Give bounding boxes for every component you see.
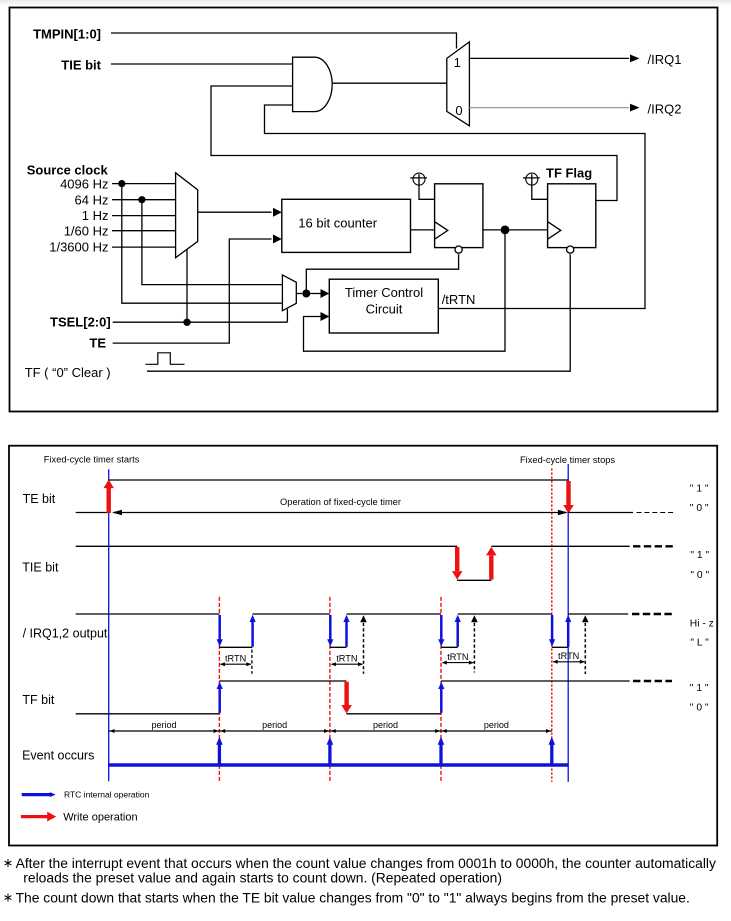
- RTC arrow TF set 2: [440, 689, 443, 713]
- svg-text:RTC internal operation: RTC internal operation: [64, 790, 150, 800]
- svg-text:∗: ∗: [3, 890, 13, 904]
- event arrow 1: [218, 744, 221, 764]
- wire TMPIN select to mux U2: [111, 33, 457, 49]
- TF waveform high 2: [441, 680, 630, 682]
- block diagram outer border: [10, 8, 718, 412]
- svg-text:TSEL[2:0]: TSEL[2:0]: [50, 315, 111, 330]
- wire node Q1 to timer control input 2: [304, 230, 506, 351]
- RTC arrow IRQ rise 3: [456, 622, 459, 647]
- IRQ waveform low pulse 2: [330, 646, 347, 648]
- svg-text:16 bit counter: 16 bit counter: [298, 216, 377, 231]
- svg-text:period: period: [484, 720, 509, 730]
- svg-text:Source clock: Source clock: [27, 163, 109, 178]
- ghost release line pulse 3: [473, 618, 475, 673]
- RTC arrow IRQ fall 4: [551, 615, 554, 640]
- RTC arrow IRQ fall 2: [329, 615, 332, 640]
- svg-text:1/60 Hz: 1/60 Hz: [64, 223, 109, 238]
- wire TF Flag feedback to AND gate U1: [211, 86, 617, 201]
- svg-text:∗: ∗: [3, 856, 13, 870]
- svg-text:0: 0: [455, 103, 462, 118]
- TIE waveform high after: [491, 545, 629, 547]
- svg-text:Event occurs: Event occurs: [22, 749, 94, 763]
- svg-text:Circuit: Circuit: [366, 302, 403, 317]
- timer stop marker line: [567, 464, 569, 782]
- IRQ waveform high segment 3: [458, 613, 552, 615]
- TE waveform trailing dashes: [637, 512, 674, 514]
- svg-text:TIE bit: TIE bit: [61, 58, 101, 73]
- svg-text:tRTN: tRTN: [558, 651, 579, 661]
- svg-text:tRTN: tRTN: [225, 654, 246, 664]
- wire 1 Hz row: [112, 215, 176, 217]
- IRQ waveform high segment 4: [568, 613, 628, 615]
- ghost release line pulse 4: [584, 618, 586, 675]
- timer control circuit U6: [329, 279, 438, 333]
- wire TE to counter enable input: [113, 239, 272, 343]
- svg-text:TMPIN[1:0]: TMPIN[1:0]: [33, 27, 101, 42]
- clock triangle of U8: [548, 222, 561, 240]
- mux U5 prescale select: [282, 275, 296, 311]
- svg-text:TIE bit: TIE bit: [22, 560, 59, 574]
- TIE waveform trailing dashes: [633, 545, 673, 547]
- svg-text:period: period: [151, 720, 176, 730]
- ghost release line pulse 1: [251, 650, 253, 674]
- write arrow TIE set: [489, 556, 493, 580]
- TF waveform low before: [76, 713, 220, 715]
- RTC arrow IRQ fall 1: [218, 615, 221, 640]
- svg-text:reloads the preset value and a: reloads the preset value and again start…: [23, 869, 502, 885]
- wire 4096 Hz row: [112, 183, 176, 185]
- svg-text:/IRQ1: /IRQ1: [648, 52, 682, 67]
- svg-text:" L ": " L ": [690, 637, 709, 648]
- ghost release line pulse 2: [363, 618, 365, 674]
- TE waveform high: [109, 479, 569, 481]
- wire TF clear to U8 reset: [147, 254, 570, 371]
- svg-text:1 Hz: 1 Hz: [82, 208, 109, 223]
- TF waveform low middle: [346, 713, 441, 715]
- wire mux U5 output to node R: [296, 293, 302, 295]
- wire node R to timer control input 1: [306, 293, 320, 295]
- svg-text:TF bit: TF bit: [22, 693, 54, 707]
- svg-text:64 Hz: 64 Hz: [75, 192, 109, 207]
- IRQ waveform high segment 2: [347, 613, 442, 615]
- svg-text:TE bit: TE bit: [23, 492, 56, 506]
- wire U7 output to U8 clock: [483, 229, 548, 231]
- dimension period line: [109, 730, 552, 732]
- junction dot TSEL: [183, 319, 190, 326]
- RTC arrow TF set 1: [218, 689, 221, 713]
- wire 1/60 Hz row: [112, 230, 176, 232]
- svg-text:" 0 ": " 0 ": [690, 570, 709, 581]
- svg-text:1/3600 Hz: 1/3600 Hz: [49, 240, 108, 255]
- svg-text:1: 1: [454, 55, 461, 70]
- svg-text:Write operation: Write operation: [63, 811, 137, 823]
- svg-text:4096 Hz: 4096 Hz: [60, 176, 108, 191]
- wire mux U3 select from TSEL: [186, 250, 188, 323]
- TF waveform high 1: [219, 680, 346, 682]
- svg-text:/tRTN: /tRTN: [442, 292, 476, 307]
- event arrow 2: [328, 744, 331, 764]
- IRQ waveform low pulse 3: [441, 646, 458, 648]
- wire 4096 Hz branch to mux U5: [122, 184, 282, 304]
- svg-text:" 0 ": " 0 ": [690, 503, 709, 514]
- event marker line 3: [440, 597, 442, 781]
- IRQ waveform low pulse 4: [552, 646, 568, 648]
- and gate U1: [293, 57, 333, 111]
- flip-flop U7: [435, 184, 483, 248]
- RTC arrow IRQ fall 3: [440, 615, 443, 640]
- junction dot 64 Hz: [138, 196, 145, 203]
- RTC arrow IRQ rise 1: [251, 622, 254, 647]
- IRQ waveform high segment 1: [252, 613, 330, 615]
- TIE waveform high: [76, 545, 458, 547]
- svg-text:Operation of fixed-cycle timer: Operation of fixed-cycle timer: [280, 497, 401, 507]
- svg-text:TF ( “0” Clear ): TF ( “0” Clear ): [25, 365, 111, 380]
- TE waveform low after stop: [568, 512, 633, 514]
- svg-text:" 1 ": " 1 ": [690, 683, 709, 694]
- wire U1 output to mux U2: [332, 82, 447, 84]
- wire 64 Hz row: [112, 199, 176, 201]
- 16 bit counter U4: [282, 199, 411, 252]
- TF waveform trailing dashes: [633, 680, 672, 682]
- event marker line 2: [329, 597, 331, 781]
- reset bubble of U7: [455, 246, 462, 253]
- mux U2 interrupt select: [447, 42, 470, 126]
- preset symbol P2 of U8: [526, 173, 538, 185]
- wire U7 reset to node R: [306, 254, 458, 293]
- svg-text:TF Flag: TF Flag: [546, 166, 592, 181]
- wire TIE bit to AND gate: [111, 63, 293, 65]
- write arrow TE set: [106, 488, 110, 514]
- pulse glyph on TF clear: [145, 353, 184, 365]
- event timeline: [109, 763, 569, 767]
- TIE waveform low pulse: [457, 579, 491, 581]
- wire 1/3600 Hz row: [112, 246, 176, 248]
- svg-text:Hi - z: Hi - z: [690, 618, 714, 629]
- event marker line 4 stop: [551, 468, 553, 782]
- preset symbol P1 of U7: [413, 173, 425, 185]
- wire 64 Hz branch to mux U5: [142, 200, 282, 285]
- legend RTC internal operation arrow: [22, 793, 50, 796]
- wire preset P2 to U8: [532, 174, 548, 199]
- wire /tRTN feedback net: [265, 105, 646, 309]
- junction dot node R: [302, 290, 310, 298]
- wire TSEL row: [113, 321, 288, 323]
- event arrow 4: [550, 744, 553, 764]
- svg-text:Fixed-cycle timer starts: Fixed-cycle timer starts: [44, 455, 140, 465]
- clock triangle of U7: [435, 222, 448, 240]
- junction dot 4096 Hz: [118, 180, 125, 187]
- event marker line 1: [218, 597, 220, 781]
- write arrow TF clear: [344, 682, 348, 705]
- reset bubble of U8: [567, 246, 574, 253]
- svg-text:Timer Control: Timer Control: [345, 285, 423, 300]
- IRQ waveform low pulse 1: [219, 646, 252, 648]
- write arrow TE clear: [566, 481, 570, 505]
- IRQ waveform high segment 0: [76, 613, 220, 615]
- svg-text:" 1 ": " 1 ": [690, 483, 709, 494]
- event arrow 3: [439, 744, 442, 764]
- svg-text:Fixed-cycle timer stops: Fixed-cycle timer stops: [520, 455, 615, 465]
- junction dot node Q1: [501, 226, 510, 235]
- timing diagram outer border: [9, 446, 717, 846]
- svg-text:" 1 ": " 1 ": [690, 550, 709, 561]
- RTC arrow IRQ rise 4: [567, 622, 570, 647]
- timer start marker line: [108, 469, 110, 781]
- RTC arrow IRQ rise 2: [345, 622, 348, 647]
- wire counter U4 to flip-flop U7 clock: [411, 229, 435, 231]
- svg-text:/IRQ2: /IRQ2: [648, 102, 682, 117]
- wire mux U2 to /IRQ1: [469, 57, 629, 59]
- wire mux U2 to /IRQ2: [469, 107, 629, 109]
- svg-text:TE: TE: [89, 336, 106, 351]
- wire mux U3 to counter clock input: [198, 211, 272, 213]
- svg-text:period: period: [262, 720, 287, 730]
- flip-flop U8 TF flag: [548, 184, 596, 248]
- svg-text:The count down that starts whe: The count down that starts when the TE b…: [16, 889, 690, 905]
- wire TSEL branch to mux U5 select: [286, 309, 288, 322]
- mux U3 clock select: [176, 173, 198, 258]
- svg-text:tRTN: tRTN: [447, 652, 468, 662]
- svg-text:period: period: [373, 720, 398, 730]
- svg-text:/ IRQ1,2 output: / IRQ1,2 output: [23, 627, 108, 641]
- legend write operation arrow: [21, 815, 48, 818]
- svg-text:" 0 ": " 0 ": [690, 702, 709, 713]
- operation of fixed-cycle timer span arrow: [114, 512, 567, 514]
- IRQ waveform trailing dashes: [632, 613, 673, 615]
- TE waveform low before start: [76, 512, 109, 514]
- wire preset P1 to U7: [419, 174, 435, 199]
- write arrow TIE clear: [455, 547, 459, 571]
- svg-text:tRTN: tRTN: [336, 654, 357, 664]
